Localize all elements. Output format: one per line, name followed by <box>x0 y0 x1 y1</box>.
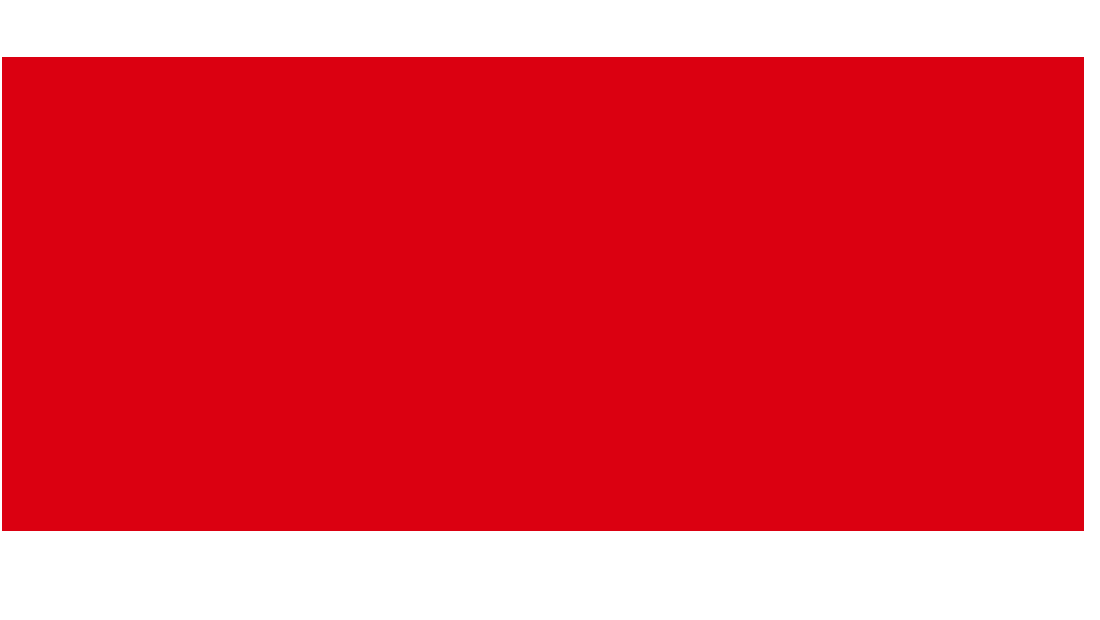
red rectangle <box>2 57 1084 531</box>
